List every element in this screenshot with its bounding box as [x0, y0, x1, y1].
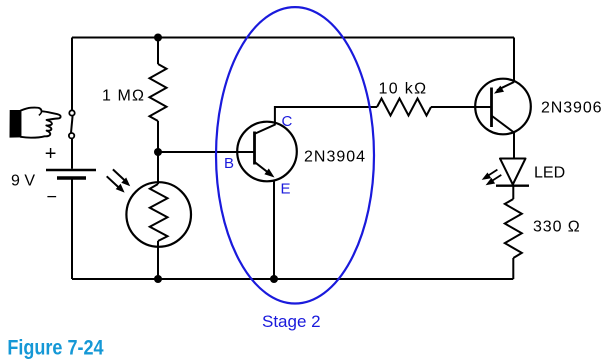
transistor Q2 2N3906	[475, 79, 531, 135]
svg-text:9 V: 9 V	[11, 173, 35, 190]
wire collector Q2 to LED	[513, 133, 515, 159]
svg-text:2N3904: 2N3904	[304, 149, 366, 166]
svg-text:B: B	[224, 155, 234, 172]
switch S1	[69, 110, 75, 138]
wire left rail upper (to switch)	[71, 38, 73, 111]
photoresistor LDR	[126, 182, 191, 247]
node R1/LDR/base	[154, 148, 162, 156]
wire 1M branch top	[157, 38, 159, 65]
wire junction to LDR	[157, 152, 159, 184]
junction dots	[154, 34, 278, 284]
wire LDR bottom to rail	[157, 241, 159, 279]
LDR light arrows	[107, 169, 131, 192]
wire emitter Q1 down	[273, 180, 275, 279]
svg-text:10 kΩ: 10 kΩ	[379, 81, 428, 98]
wire base of Q1	[158, 151, 254, 153]
wire resistor to base Q2	[431, 106, 492, 108]
svg-text:E: E	[281, 181, 291, 198]
LED D1	[496, 159, 529, 186]
node LDR bottom rail	[154, 275, 162, 283]
wire bottom rail	[72, 278, 513, 280]
wire R3 to bottom rail	[512, 258, 514, 279]
svg-text:Figure 7-24: Figure 7-24	[7, 336, 103, 360]
wire battery to bottom rail	[71, 180, 73, 280]
svg-text:1 MΩ: 1 MΩ	[102, 88, 145, 105]
svg-text:Stage 2: Stage 2	[262, 312, 321, 331]
LED light arrows	[482, 170, 502, 186]
node top of R1	[154, 34, 162, 42]
wire emitter Q2 to top rail	[513, 38, 515, 83]
svg-text:LED: LED	[534, 165, 565, 182]
wire 1M to junction	[157, 121, 159, 152]
wire LED to R3	[512, 186, 514, 199]
resistor R1 1 MΩ	[150, 64, 167, 121]
wire collector Q1 to resistor	[275, 107, 377, 125]
svg-text:C: C	[282, 113, 293, 130]
wire top rail	[72, 37, 514, 39]
svg-text:+: +	[45, 143, 57, 165]
wire switch to battery	[71, 138, 73, 169]
stage 2 ellipse	[216, 7, 374, 303]
svg-text:−: −	[47, 187, 58, 207]
hand pointer icon	[10, 108, 61, 138]
transistor Q1 2N3904	[237, 122, 297, 182]
node emitter Q1 bottom rail	[270, 275, 278, 283]
svg-text:2N3906: 2N3906	[541, 100, 602, 117]
resistor R3 330 Ω	[505, 199, 522, 258]
svg-text:330 Ω: 330 Ω	[533, 219, 581, 236]
resistor R2 10 kΩ	[377, 99, 431, 116]
battery B1 9V	[46, 170, 96, 178]
